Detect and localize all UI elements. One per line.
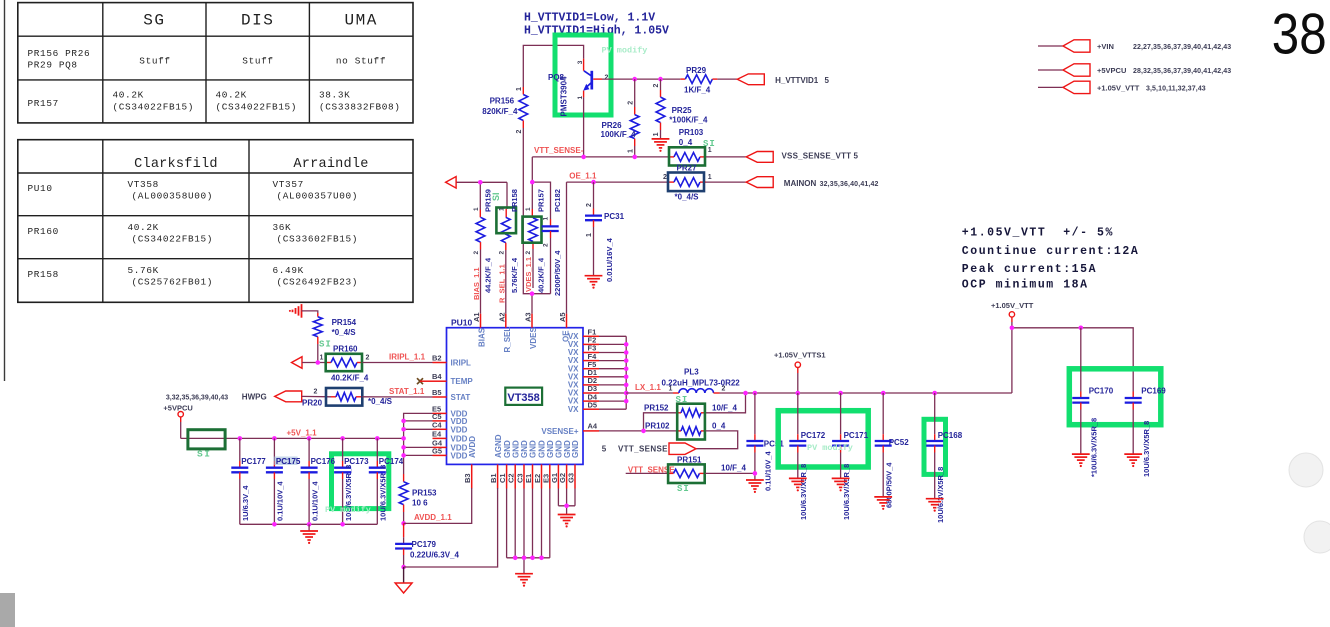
node rail PC52: [881, 391, 886, 396]
svg-text:0.22uH_MPL73-0R22: 0.22uH_MPL73-0R22: [662, 379, 741, 388]
svg-text:PC170: PC170: [1089, 387, 1114, 396]
node PC51 VTT_SENSE-: [753, 471, 758, 476]
svg-text:SI: SI: [677, 484, 690, 494]
highlight box PC170 PC169: [1069, 369, 1161, 425]
pin A5 stub: [566, 314, 568, 328]
svg-text:SI: SI: [491, 192, 501, 201]
svg-text:Clarksfild: Clarksfild: [134, 157, 218, 172]
svg-text:AGND: AGND: [494, 434, 503, 458]
capacitor PC176 0.1U/10V_4: [301, 438, 336, 524]
svg-text:PR26: PR26: [602, 121, 623, 130]
svg-text:0.1U/10V_4: 0.1U/10V_4: [310, 481, 319, 521]
svg-text:*0_4/S: *0_4/S: [368, 397, 393, 406]
faint ui circle 2 right edge: [1304, 521, 1330, 553]
wire +1.05V_VTT rail: [1012, 328, 1133, 392]
capacitor PC173 10U/6.3V/X5R_8: [334, 438, 369, 524]
svg-text:VT357: VT357: [273, 179, 304, 190]
pin E1 GND: [532, 464, 534, 488]
resistor PR160 40.2K/F_4 in SI box: [320, 344, 370, 382]
node GND bus junction: [522, 556, 527, 561]
svg-text:SI: SI: [319, 340, 332, 350]
svg-text:*0_4/S: *0_4/S: [675, 192, 700, 201]
svg-text:+VIN: +VIN: [1097, 42, 1114, 51]
svg-text:PU10: PU10: [28, 183, 53, 194]
svg-text:(CS26492FB23): (CS26492FB23): [277, 277, 359, 288]
pin E5 VDD: [433, 412, 447, 414]
node VTT rail left: [1010, 326, 1015, 331]
pin C4 VDD: [433, 428, 447, 430]
wire VTT_SENSE- into PR151: [626, 472, 669, 474]
svg-text:1: 1: [499, 207, 506, 211]
svg-text:1: 1: [525, 207, 532, 211]
pin E4 VDD: [433, 437, 447, 439]
svg-text:PR29 PQ8: PR29 PQ8: [28, 60, 78, 71]
page number 38: [1272, 3, 1327, 66]
svg-text:VSENSE+: VSENSE+: [541, 427, 578, 436]
svg-text:1U/6.3V_4: 1U/6.3V_4: [241, 485, 250, 521]
svg-text:H_VTTVID1=Low, 1.1V: H_VTTVID1=Low, 1.1V: [524, 12, 655, 25]
node base-PR25: [658, 77, 663, 82]
earth triangle ground under PC179: [395, 583, 412, 593]
svg-text:VT358: VT358: [128, 179, 159, 190]
note H_VTTVID1 levels: [524, 12, 669, 38]
svg-text:PC168: PC168: [938, 431, 963, 440]
svg-text:B5: B5: [432, 388, 442, 397]
pin F3 VX: [583, 352, 599, 354]
SI box around PR152 PR102: [677, 404, 705, 440]
table 1 (SG/DIS/UMA): [18, 3, 413, 123]
svg-text:2: 2: [722, 386, 726, 393]
svg-text:PR158: PR158: [510, 189, 519, 212]
svg-text:VDES_1.1: VDES_1.1: [524, 257, 533, 292]
svg-text:R_SEL_1.1: R_SEL_1.1: [498, 264, 507, 303]
svg-text:B1: B1: [489, 473, 498, 483]
svg-text:PU10: PU10: [451, 318, 473, 328]
svg-text:PC174: PC174: [379, 457, 404, 466]
wire VTT_SENSE- branch down to PR157: [532, 157, 550, 219]
node rail PC51: [753, 391, 758, 396]
pin C2 GND: [514, 464, 516, 488]
capacitor PC177 1U/6.3V_4: [231, 438, 266, 524]
svg-text:PL3: PL3: [684, 368, 699, 377]
node VX bus junction: [624, 350, 629, 355]
node A4 PR152: [641, 429, 646, 434]
resistor PR102 0_4 in SI box: [599, 421, 726, 435]
pin D4 VX: [583, 400, 599, 402]
wire PC179 to earth triangle: [403, 567, 405, 583]
svg-text:40.2K/F_4: 40.2K/F_4: [331, 374, 369, 383]
svg-text:5.76K/F_4: 5.76K/F_4: [510, 257, 519, 293]
pin G2 GND: [566, 464, 568, 488]
svg-text:1: 1: [320, 355, 324, 362]
node rail PC168: [932, 391, 937, 396]
ground under PC168: [926, 498, 944, 500]
svg-text:10/F_4: 10/F_4: [721, 463, 746, 472]
wire VDD bus: [404, 413, 433, 474]
node VX bus junction: [624, 342, 629, 347]
table 2 (Clarksfild/Arraindle): [18, 140, 413, 303]
svg-text:28,32,35,36,37,39,40,41,42,43: 28,32,35,36,37,39,40,41,42,43: [1133, 68, 1231, 75]
pin D5 VX: [583, 408, 599, 410]
wire PR29 to H_VTTVID1 connector: [717, 78, 737, 80]
svg-text:B3: B3: [463, 473, 472, 483]
svg-text:PC31: PC31: [604, 212, 625, 221]
svg-text:PV modify: PV modify: [602, 46, 648, 56]
ground under PC171: [832, 477, 850, 479]
svg-text:44.2K/F_4: 44.2K/F_4: [484, 257, 493, 293]
svg-text:PR156: PR156: [490, 97, 515, 106]
svg-text:GND: GND: [529, 440, 538, 458]
svg-text:1: 1: [516, 87, 523, 91]
svg-text:PC177: PC177: [241, 457, 266, 466]
resistor PR158 5.76K/F_4 in SI box: [496, 189, 519, 293]
svg-text:VSS_SENSE_VTT: VSS_SENSE_VTT: [782, 151, 852, 160]
highlight box PC172 PC171: [778, 411, 868, 467]
svg-text:1: 1: [653, 132, 660, 136]
svg-text:C2: C2: [507, 473, 516, 483]
transistor Q PQ8 PMST3904: [548, 60, 609, 116]
resistor PR151 10/F_4 in SI box: [668, 455, 746, 483]
svg-text:PV modify: PV modify: [807, 443, 853, 453]
ground under PC169: [1124, 453, 1142, 455]
svg-text:AVDD_1.1: AVDD_1.1: [414, 513, 452, 522]
svg-text:VTT_SENSE-: VTT_SENSE-: [534, 146, 584, 155]
svg-text:LX_1.1: LX_1.1: [635, 383, 661, 392]
svg-text:Stuff: Stuff: [242, 56, 273, 67]
svg-text:G3: G3: [567, 473, 576, 483]
node OE PC31: [591, 180, 596, 185]
svg-text:A2: A2: [497, 312, 506, 322]
grey block bottom-left corner: [0, 593, 15, 627]
node VTT_SENSE- branch: [530, 180, 535, 185]
svg-text:SI: SI: [703, 139, 716, 149]
node GND bus junction: [539, 556, 544, 561]
wire OE down to pin A5: [566, 182, 568, 314]
svg-text:10U/6.3V/X5R_8: 10U/6.3V/X5R_8: [799, 464, 808, 520]
svg-text:SG: SG: [143, 12, 165, 30]
capacitor PC170 *10U/6.3V/X5R_8: [1072, 328, 1113, 477]
ground under PC52: [874, 496, 892, 498]
svg-text:+1.05V_VTT: +1.05V_VTT: [991, 301, 1034, 310]
connector HWPG with list: [166, 389, 323, 408]
svg-text:OE_1.1: OE_1.1: [569, 172, 597, 181]
pin A3 stub: [531, 314, 533, 328]
wire PQ8 collector stub pin 3: [583, 59, 585, 71]
ground under PC172: [789, 477, 807, 479]
svg-text:3: 3: [577, 60, 584, 64]
svg-text:PC173: PC173: [344, 457, 369, 466]
ground under PC31: [585, 275, 603, 277]
node G GND junction: [564, 504, 569, 509]
svg-text:PR153: PR153: [412, 489, 437, 498]
svg-text:1: 1: [543, 217, 550, 221]
resistor PR153 10_6: [399, 474, 437, 523]
svg-text:6.49K: 6.49K: [273, 265, 304, 276]
svg-text:A1: A1: [472, 312, 481, 322]
svg-text:VX: VX: [568, 405, 579, 414]
wire LX to inductor: [626, 392, 673, 394]
legend connector +5VPCU: [1038, 64, 1231, 76]
pin A2 stub: [505, 314, 507, 328]
power +1.05V_VTT: [991, 301, 1034, 393]
svg-text:10 6: 10 6: [412, 499, 428, 508]
node VDD bus junction: [401, 427, 406, 432]
svg-text:(CS34022FB15): (CS34022FB15): [216, 102, 298, 113]
svg-text:GND: GND: [511, 440, 520, 458]
capacitor PC174 10U/6.3V/X5R_8: [369, 438, 404, 524]
wire STAT_1.1 to pin B5: [362, 396, 432, 398]
ground under PC170: [1072, 453, 1090, 455]
pin B4 TEMP: [433, 380, 447, 382]
svg-text:100K/F_4: 100K/F_4: [601, 130, 637, 139]
node bottom bus PC176: [307, 522, 312, 527]
svg-text:E1: E1: [524, 474, 533, 483]
node GND bus junction: [513, 556, 518, 561]
svg-text:5: 5: [854, 151, 859, 160]
wire PR102 to VTT_SENSE connector: [696, 431, 738, 449]
no-connect X on pin B4: [417, 378, 433, 384]
svg-text:PC175: PC175: [276, 457, 301, 466]
connector VSS_SENSE_VTT: [746, 151, 858, 162]
resistor PR156 820K/F_4: [482, 87, 527, 134]
svg-text:BIAS: BIAS: [477, 327, 486, 347]
node GND bus junction: [530, 556, 535, 561]
svg-text:Stuff: Stuff: [139, 56, 170, 67]
svg-text:A5: A5: [558, 312, 567, 322]
capacitor PC172 10U/6.3V/X5R_8: [789, 393, 826, 520]
svg-text:6800P/50V_4: 6800P/50V_4: [885, 462, 894, 508]
resistor PR29 1K/F_4: [680, 66, 717, 95]
node bottom bus PC173: [340, 522, 345, 527]
svg-text:PR102: PR102: [645, 421, 670, 430]
node rail PC171: [838, 391, 843, 396]
svg-text:+1.05V_VTT: +1.05V_VTT: [1097, 83, 1140, 92]
capacitor PC52 6800P/50V_4: [875, 393, 910, 508]
svg-text:SI: SI: [197, 449, 211, 460]
svg-text:D5: D5: [588, 400, 598, 409]
svg-text:G5: G5: [432, 446, 442, 455]
capacitor PC31 0.01U/16V_4: [585, 182, 625, 282]
ground under GND bus: [515, 573, 533, 575]
svg-text:*100K/F_4: *100K/F_4: [669, 115, 708, 124]
node VTT_SENSE- PR26: [632, 155, 637, 160]
node rail VTTS1 PC172: [796, 391, 801, 396]
capacitor PC168 10U/6.3V/X5R_8: [926, 393, 963, 523]
ground under PC51: [746, 479, 764, 481]
wire AVDD_1.1 to pin B3: [404, 488, 472, 523]
svg-text:38.3K: 38.3K: [319, 90, 350, 101]
svg-text:1: 1: [627, 149, 634, 153]
svg-text:2: 2: [653, 84, 660, 88]
svg-text:+1.05V_VTTS1: +1.05V_VTTS1: [774, 351, 826, 360]
capacitor PC171 10U/6.3V/X5R_8: [832, 393, 869, 520]
node +5V PC177: [238, 436, 243, 441]
node base-PR26: [632, 77, 637, 82]
svg-text:+1.05V_VTT +/- 5%: +1.05V_VTT +/- 5%: [962, 227, 1114, 240]
node VX bus junction: [624, 358, 629, 363]
svg-text:(CS33602FB15): (CS33602FB15): [277, 234, 359, 245]
resistor PR27 *0_4/S in box: [663, 163, 712, 201]
SI box on +5V wire: [188, 430, 225, 449]
svg-text:VDES: VDES: [529, 327, 538, 349]
svg-text:STAT_1.1: STAT_1.1: [389, 387, 425, 396]
pin C5 VDD: [433, 420, 447, 422]
wire VTT_SENSE- horizontal: [532, 156, 668, 158]
svg-text:0.1U/10V_4: 0.1U/10V_4: [276, 481, 285, 521]
pin F1 VX: [583, 335, 599, 337]
svg-text:(CS25762FB01): (CS25762FB01): [132, 277, 214, 288]
svg-text:PR152: PR152: [644, 403, 669, 412]
svg-text:IRIPL: IRIPL: [451, 359, 472, 368]
wire GND bus G1-G3: [558, 489, 575, 515]
node PR159 top: [478, 180, 483, 185]
resistor PR20 *0_4/S in navy box: [302, 388, 393, 406]
pin B3 AVDD: [471, 464, 473, 488]
resistor PR152 10/F_4 in SI box: [644, 393, 746, 431]
highlight box PC173 PC174: [332, 454, 389, 509]
capacitor PC179 0.22U/6.3V_4: [395, 523, 459, 567]
note +1.05V_VTT spec block: [962, 227, 1139, 292]
connector H_VTTVID1: [737, 74, 829, 85]
svg-text:22,27,35,36,37,39,40,41,42,43: 22,27,35,36,37,39,40,41,42,43: [1133, 44, 1231, 51]
svg-text:VTT_SENSE: VTT_SENSE: [618, 445, 668, 454]
svg-text:PC52: PC52: [889, 438, 910, 447]
svg-text:1: 1: [708, 174, 712, 181]
node VDD bus junction: [401, 445, 406, 450]
svg-text:*0_4/S: *0_4/S: [332, 328, 357, 337]
pin D3 VX: [583, 392, 599, 394]
wire PR154 top: [302, 311, 318, 313]
svg-text:BIAS_1.1: BIAS_1.1: [472, 267, 481, 300]
connector MAINON: [746, 177, 878, 188]
wire PR151 to PC51 bottom: [705, 472, 755, 474]
svg-text:PR154: PR154: [332, 318, 357, 327]
svg-text:no Stuff: no Stuff: [336, 56, 386, 67]
svg-text:PR27: PR27: [677, 163, 698, 172]
svg-text:0.01U/16V_4: 0.01U/16V_4: [605, 237, 614, 282]
svg-text:VT358: VT358: [507, 392, 539, 404]
svg-text:PR156 PR26: PR156 PR26: [28, 48, 91, 59]
wire PR27 to MAINON connector: [706, 181, 746, 183]
capacitor PC182 2200P/50V_4: [542, 189, 562, 296]
svg-text:UMA: UMA: [345, 12, 378, 30]
op-amp U PU10 VT358 regulator chip: [447, 318, 584, 465]
svg-text:PR160: PR160: [28, 226, 59, 237]
pin B1 AGND: [497, 464, 499, 488]
node +5V PC173: [340, 436, 345, 441]
svg-text:R_SEL: R_SEL: [503, 327, 512, 353]
pin A4 VSENSE+: [583, 430, 599, 432]
wire IRIPL_1.1 to pin B2: [362, 362, 432, 364]
power +1.05V_VTTS1: [774, 351, 826, 394]
svg-text:(AL000358U00): (AL000358U00): [132, 191, 214, 202]
node AVDD: [401, 521, 406, 526]
legend connector +1.05V_VTT: [1038, 81, 1206, 93]
ground under G pins: [558, 514, 576, 516]
node rail PR152: [743, 391, 748, 396]
pin C3 GND: [523, 464, 525, 488]
svg-text:A4: A4: [588, 422, 598, 431]
svg-text:(AL000357U00): (AL000357U00): [277, 191, 359, 202]
svg-text:PR157: PR157: [537, 189, 546, 212]
svg-text:GND: GND: [571, 440, 580, 458]
svg-text:5: 5: [602, 445, 607, 454]
svg-text:32,35,36,40,41,42: 32,35,36,40,41,42: [820, 181, 879, 188]
svg-text:1: 1: [586, 233, 593, 237]
svg-text:PR157: PR157: [28, 98, 59, 109]
svg-text:Peak current:15A: Peak current:15A: [962, 263, 1097, 276]
wire arrow to PR160: [302, 362, 326, 364]
svg-text:PR20: PR20: [302, 399, 323, 408]
pin G1 GND: [557, 464, 559, 488]
svg-text:1: 1: [473, 207, 480, 211]
pin F5 VX: [583, 368, 599, 370]
svg-text:10U/6.3V/X5R_8: 10U/6.3V/X5R_8: [379, 465, 388, 521]
off-page arrow left IRIPL: [292, 357, 303, 369]
svg-text:40.2K: 40.2K: [216, 90, 247, 101]
wire GND bus C1-E3: [507, 489, 550, 574]
power +5VPCU: [163, 404, 192, 439]
wire PR103 to VSS connector: [706, 156, 746, 158]
svg-text:10/F_4: 10/F_4: [712, 403, 737, 412]
svg-text:E4: E4: [432, 429, 442, 438]
svg-text:+5VPCU: +5VPCU: [163, 404, 192, 413]
svg-text:PC169: PC169: [1141, 387, 1166, 396]
svg-text:A3: A3: [524, 312, 533, 322]
svg-text:+5V_1.1: +5V_1.1: [287, 428, 318, 437]
node PC179 AGND: [401, 565, 406, 570]
resistor PR159 44.2K/F_4: [473, 189, 493, 293]
svg-text:5.76K: 5.76K: [128, 265, 159, 276]
wire output rail: [720, 392, 1012, 394]
svg-text:2: 2: [314, 389, 318, 396]
svg-text:MAINON: MAINON: [784, 179, 817, 188]
wire BIAS_1.1 to pin A1: [480, 250, 482, 314]
ground under PR25: [652, 138, 670, 140]
node VDES: [530, 291, 535, 296]
capacitor PC51 0.1U/10V_4: [746, 393, 784, 491]
pin C1 GND: [506, 464, 508, 488]
svg-text:PR25: PR25: [672, 106, 693, 115]
svg-text:2: 2: [473, 251, 480, 255]
svg-text:(CS33832FB08): (CS33832FB08): [319, 102, 401, 113]
wire PQ8 collector rail to PR156: [523, 45, 583, 87]
svg-text:PR151: PR151: [677, 455, 702, 464]
svg-text:AVDD: AVDD: [468, 436, 477, 458]
wire R_SEL_1.1 to pin A2: [505, 250, 507, 314]
wire PR156 down to VDES node: [523, 128, 532, 294]
svg-text:40.2K: 40.2K: [113, 90, 144, 101]
wire AGND net to B1: [404, 488, 498, 567]
pin E3 GND: [549, 464, 551, 488]
svg-text:PC182: PC182: [553, 189, 562, 212]
pin D1 VX: [583, 376, 599, 378]
svg-text:PR160: PR160: [333, 344, 358, 353]
wire +5V caps bottom bus: [240, 523, 377, 525]
wire PQ8 base net to PR29: [602, 78, 680, 80]
svg-text:IRIPL_1.1: IRIPL_1.1: [389, 353, 426, 362]
svg-text:PC51: PC51: [764, 440, 785, 449]
svg-text:VDD: VDD: [451, 451, 468, 460]
highlight box PQ8: [555, 35, 611, 115]
node VX bus junction: [624, 366, 629, 371]
svg-text:2: 2: [516, 130, 523, 134]
resistor PR157 40.2K/F_4 in SI box: [523, 189, 546, 293]
svg-text:40.2K: 40.2K: [128, 222, 159, 233]
pin G5 VDD: [433, 454, 447, 456]
svg-text:820K/F_4: 820K/F_4: [482, 107, 518, 116]
resistor PR154 *0_4/S: [313, 313, 356, 363]
